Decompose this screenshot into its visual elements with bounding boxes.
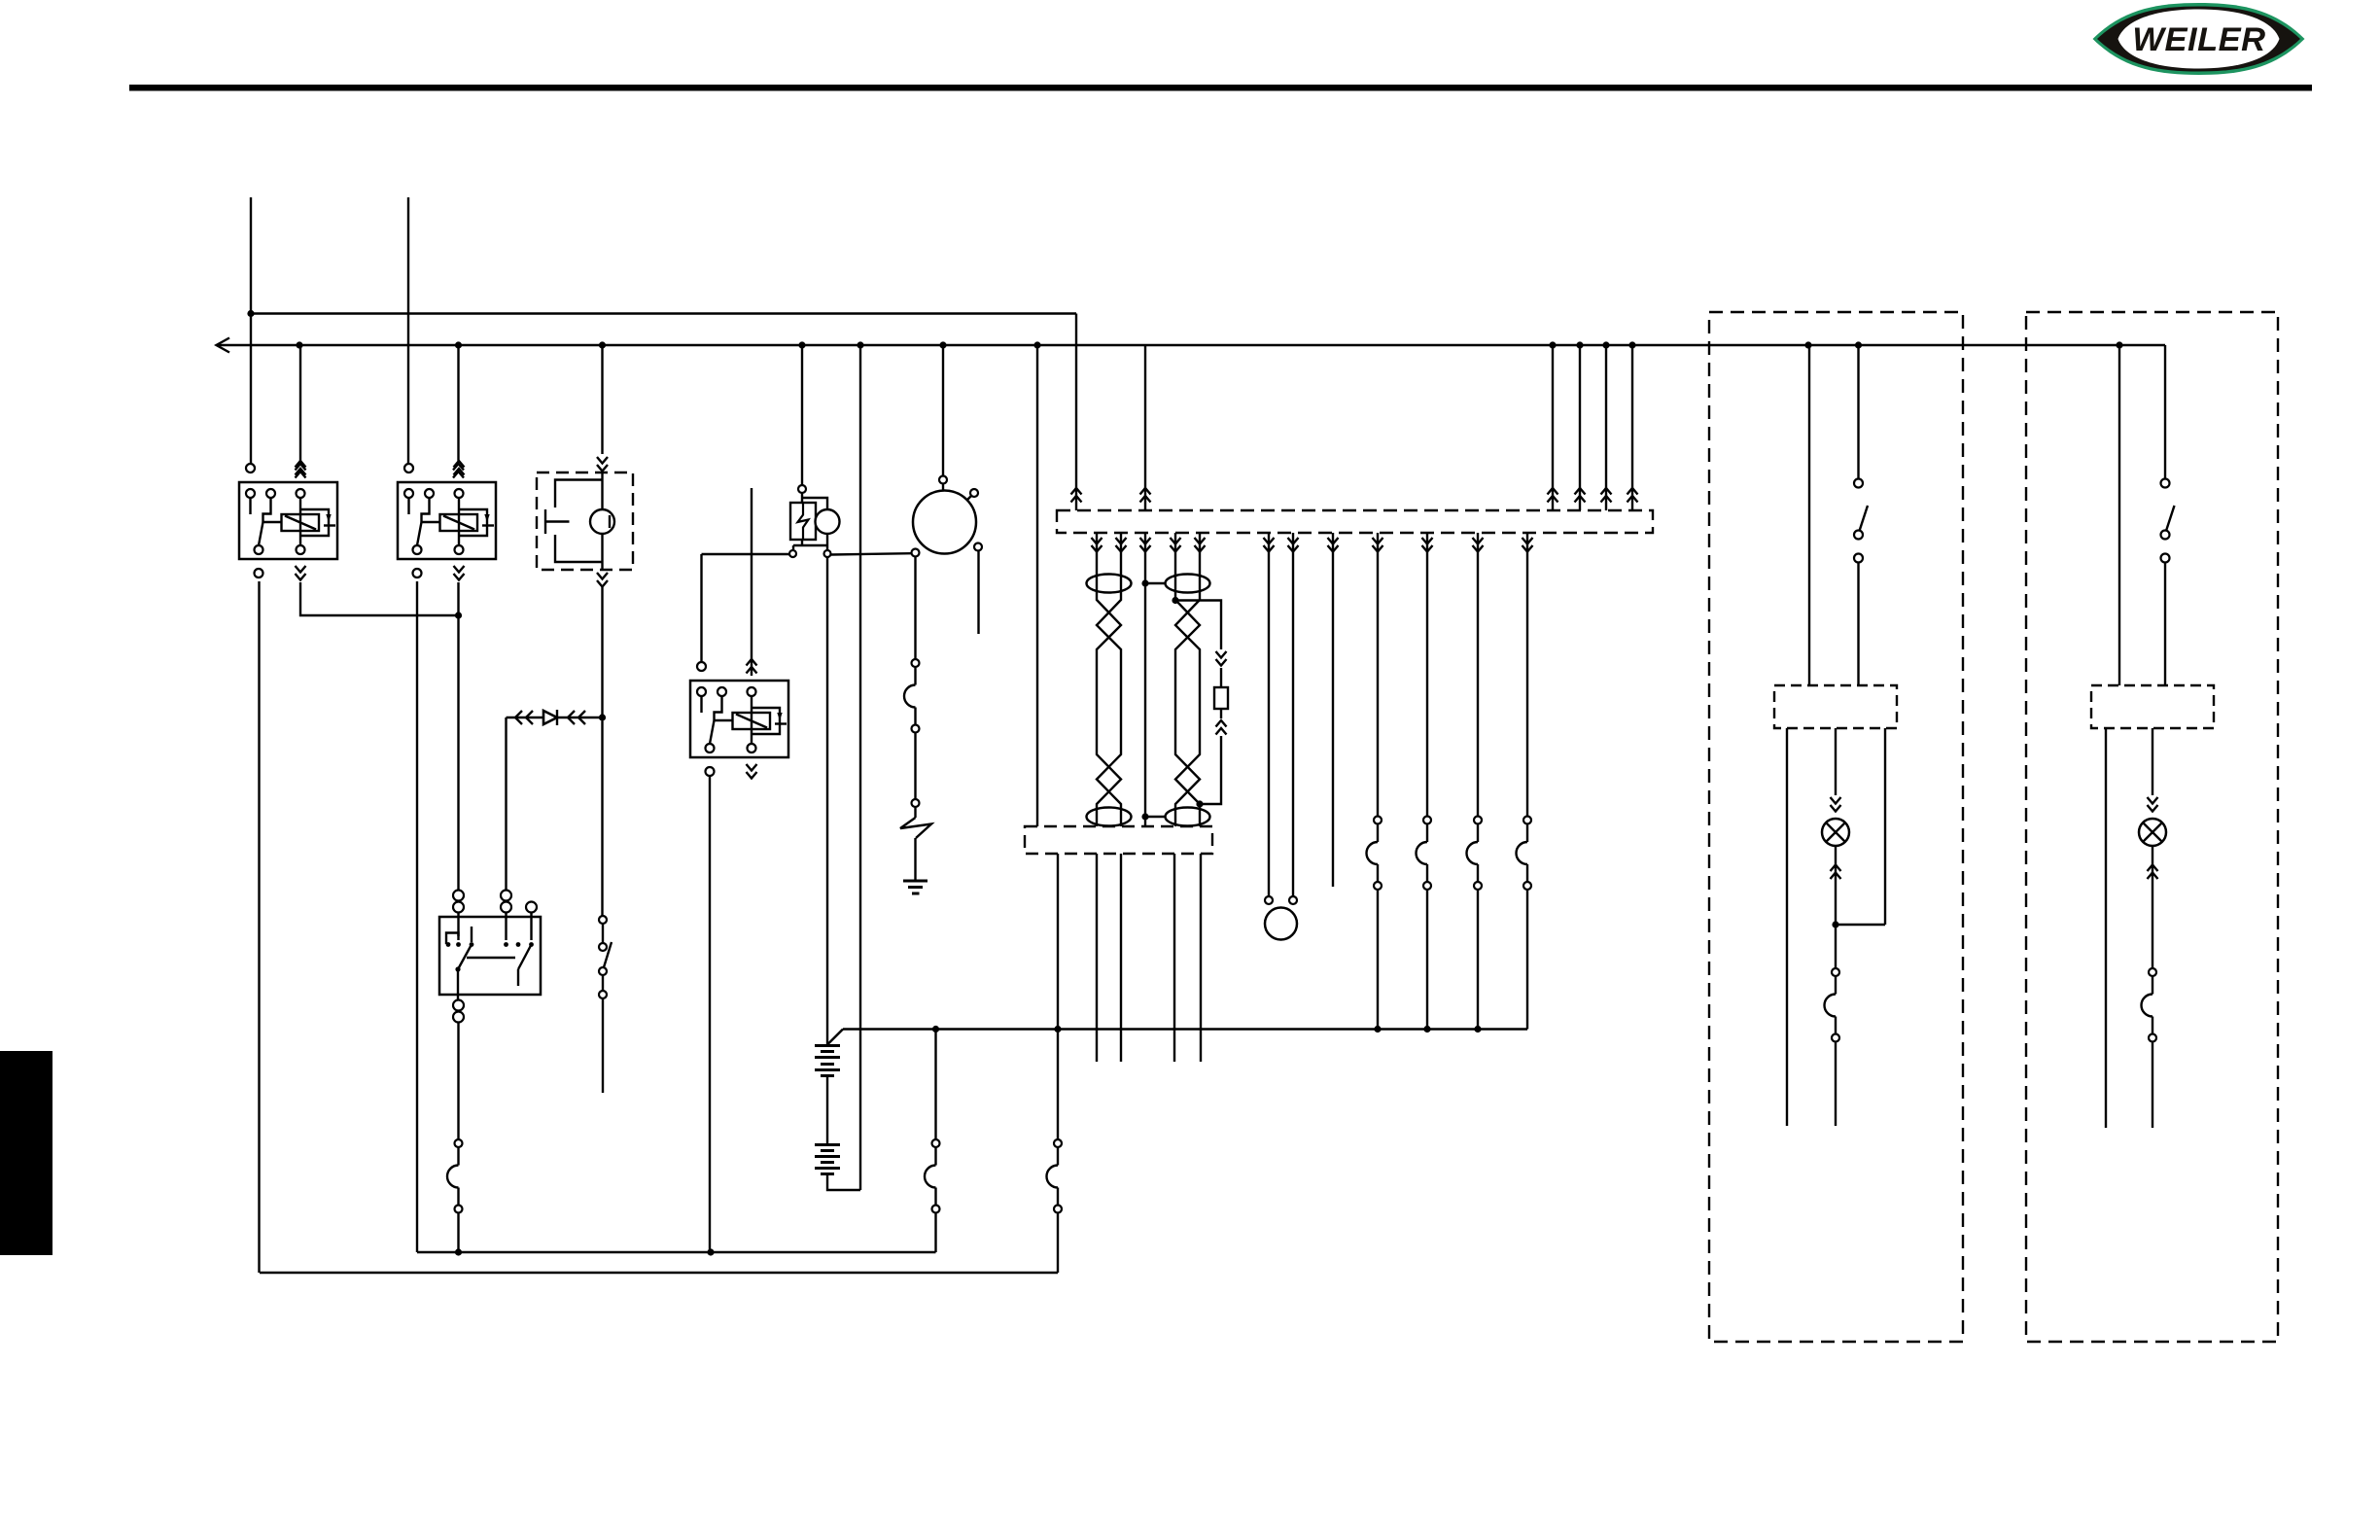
svg-text:WEILER: WEILER (2132, 21, 2265, 58)
